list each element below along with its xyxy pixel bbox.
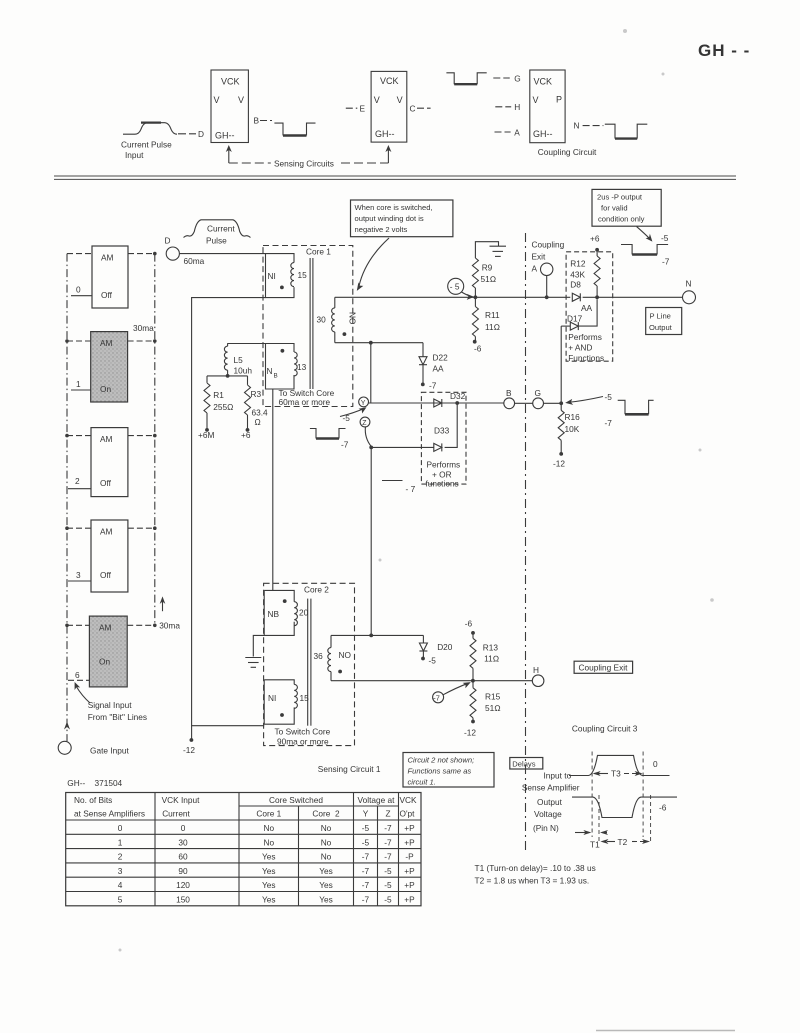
winding NB (core 1) box <box>266 344 295 390</box>
svg-text:B: B <box>506 388 512 398</box>
ground (R9 top) <box>475 242 498 298</box>
svg-text:60ma: 60ma <box>184 256 205 266</box>
C/G negative pulse waveform <box>446 73 486 84</box>
svg-text:GH--: GH-- <box>215 131 235 141</box>
svg-text:+P: +P <box>404 866 415 876</box>
svg-text:51Ω: 51Ω <box>481 274 497 284</box>
svg-text:-7: -7 <box>605 418 613 428</box>
svg-text:R13: R13 <box>483 643 499 653</box>
svg-text:No: No <box>263 837 274 847</box>
gate input dashed bus (left vertical) <box>66 254 68 742</box>
scan speckles <box>119 29 714 952</box>
svg-text:+P: +P <box>404 837 415 847</box>
svg-text:-6: -6 <box>474 344 482 354</box>
T3 dimension <box>594 773 608 775</box>
winding NI dot (core 2) <box>280 713 284 717</box>
svg-text:Yes: Yes <box>319 866 333 876</box>
svg-text:90: 90 <box>178 866 188 876</box>
Core 2 dashed enclosure <box>264 583 355 745</box>
svg-text:30ma: 30ma <box>133 323 154 333</box>
arrow -7 to R13 junction <box>443 683 468 695</box>
svg-text:-7: -7 <box>362 895 370 905</box>
circuit 2 note box <box>403 753 494 788</box>
B output negative pulse waveform <box>274 123 315 135</box>
svg-text:AM: AM <box>100 338 113 348</box>
svg-text:at Sense Amplifiers: at Sense Amplifiers <box>74 809 145 819</box>
wire Y line to OR box <box>369 402 504 404</box>
svg-text:output winding dot is: output winding dot is <box>355 214 424 223</box>
svg-text:N: N <box>267 366 273 376</box>
svg-text:V: V <box>533 95 539 105</box>
wire gate bus to AM6 <box>67 624 89 626</box>
svg-text:-7: -7 <box>384 852 392 862</box>
svg-text:90ma or more: 90ma or more <box>277 736 329 746</box>
wire AM1 to right bus <box>128 340 155 342</box>
input waveform <box>569 755 670 775</box>
svg-text:0: 0 <box>76 285 81 295</box>
svg-text:GH - -: GH - - <box>698 41 750 60</box>
svg-text:D: D <box>165 236 171 246</box>
svg-text:R9: R9 <box>482 263 493 273</box>
resistor R13 11ohm <box>470 638 476 668</box>
node Y circle <box>359 397 369 407</box>
svg-text:VCK: VCK <box>221 77 240 87</box>
svg-text:T2 = 1.8 us when T3 = 1.93 us.: T2 = 1.8 us when T3 = 1.93 us. <box>475 876 590 886</box>
coupling exit boundary dashed line <box>525 233 527 850</box>
svg-text:Core 2: Core 2 <box>304 585 329 595</box>
wire L5 top to NB <box>228 343 266 345</box>
wire Z vertical to core 2 <box>370 447 372 635</box>
svg-text:13: 13 <box>297 362 307 372</box>
svg-text:AM: AM <box>101 253 114 263</box>
svg-text:2us -P output: 2us -P output <box>597 193 643 202</box>
transformer core 1 lines <box>309 258 311 389</box>
separator double rule <box>54 175 736 177</box>
ground (core 2) <box>253 635 264 656</box>
wire D33 input <box>371 446 434 448</box>
svg-text:Functions same as: Functions same as <box>408 767 472 776</box>
winding NI (core 1) box <box>266 254 295 298</box>
node A label with dashes <box>495 131 511 133</box>
svg-text:Yes: Yes <box>262 895 276 905</box>
svg-text:No: No <box>321 852 332 862</box>
svg-text:GH--: GH-- <box>375 129 395 139</box>
svg-text:-5: -5 <box>661 233 669 243</box>
svg-text:-5: -5 <box>362 823 370 833</box>
svg-text:D22: D22 <box>433 353 449 363</box>
svg-text:-7: -7 <box>362 880 370 890</box>
table frame <box>66 793 421 906</box>
svg-text:+6M: +6M <box>198 430 214 440</box>
svg-text:Ω: Ω <box>255 417 261 427</box>
svg-text:-7: -7 <box>429 381 437 391</box>
P line output box <box>646 308 682 335</box>
svg-text:-5: -5 <box>384 895 392 905</box>
wire R1-R3 rail <box>207 375 248 377</box>
svg-text:V: V <box>374 95 380 105</box>
svg-text:From "Bit" Lines: From "Bit" Lines <box>88 712 147 722</box>
svg-text:Core 1: Core 1 <box>256 809 281 819</box>
svg-text:+ AND: + AND <box>568 343 592 353</box>
svg-text:T1: T1 <box>590 840 600 850</box>
VCK box U2 <box>371 71 407 142</box>
svg-text:B: B <box>274 373 278 380</box>
svg-text:condition only: condition only <box>598 215 645 224</box>
svg-text:63.4: 63.4 <box>252 408 269 418</box>
svg-text:functions: functions <box>426 479 459 489</box>
svg-text:T1 (Turn-on delay)= .10 to .38: T1 (Turn-on delay)= .10 to .38 us <box>475 863 596 873</box>
diode D33 <box>434 443 442 451</box>
svg-text:Output: Output <box>649 323 673 332</box>
diode D8 on P line <box>572 293 580 301</box>
svg-text:Y: Y <box>363 809 369 819</box>
svg-text:Core Switched: Core Switched <box>269 795 323 805</box>
svg-text:4: 4 <box>118 880 123 890</box>
svg-text:Z: Z <box>362 420 367 427</box>
svg-text:-5: -5 <box>605 392 613 402</box>
Z stub to D33 line <box>365 427 371 447</box>
coupling exit boxed label <box>574 661 633 673</box>
N output negative pulse waveform <box>605 124 648 138</box>
svg-text:Voltage at: Voltage at <box>358 795 396 805</box>
wire AM2 to right bus <box>128 435 155 437</box>
svg-text:Core 1: Core 1 <box>306 247 331 257</box>
svg-text:-12: -12 <box>464 728 476 738</box>
wire Y drop <box>370 343 372 403</box>
svg-text:Exit: Exit <box>532 252 547 262</box>
svg-text:Coupling Circuit 3: Coupling Circuit 3 <box>572 724 638 734</box>
svg-text:On: On <box>99 657 110 667</box>
svg-text:-7: -7 <box>384 837 392 847</box>
wire D to NI <box>179 253 265 255</box>
signal input arrow <box>76 686 90 703</box>
winding NB (core 2) box <box>264 590 294 635</box>
svg-text:+P: +P <box>404 880 415 890</box>
svg-text:No: No <box>321 823 332 833</box>
node Z circle <box>360 417 370 427</box>
svg-text:AM: AM <box>100 527 113 537</box>
svg-text:G: G <box>514 74 520 84</box>
resistor R12 43K <box>594 256 600 286</box>
svg-text:+6: +6 <box>241 430 251 440</box>
svg-text:1: 1 <box>118 837 123 847</box>
right dashed bus <box>154 254 156 626</box>
T1 dimension <box>575 832 589 834</box>
svg-text:- 7: - 7 <box>406 484 416 494</box>
current pulse waveform (main) <box>184 220 251 238</box>
arrow note box to NO winding <box>359 238 389 286</box>
svg-text:Current Pulse: Current Pulse <box>121 140 172 150</box>
bit 0 stub <box>71 295 92 297</box>
svg-text:Circuit 2 not shown;: Circuit 2 not shown; <box>408 756 475 765</box>
svg-text:Z: Z <box>385 809 390 819</box>
AM box 3 (Off) <box>91 520 128 592</box>
svg-text:-6: -6 <box>465 619 473 629</box>
arrow up on gate bus <box>64 722 70 730</box>
svg-text:-6: -6 <box>659 803 667 813</box>
bit 1 stub <box>71 389 91 391</box>
table verticals <box>155 793 399 906</box>
node E label <box>346 107 358 109</box>
diode D20 <box>422 635 424 643</box>
-7 source circle <box>433 692 444 703</box>
30ma arrow lower <box>162 600 164 611</box>
svg-text:R3: R3 <box>251 389 262 399</box>
gate input circle <box>58 741 71 754</box>
sensing circuits arrow 1 <box>228 149 230 163</box>
winding NI coil (core 2) <box>294 684 297 708</box>
wire AM6 to right bus <box>127 624 155 626</box>
winding NB coil (core 2) <box>294 602 297 626</box>
svg-text:(Pin N): (Pin N) <box>533 823 559 833</box>
wire OR output to B,G <box>457 402 561 404</box>
resistor R11 11ohm <box>474 297 476 306</box>
winding NB coil <box>294 352 297 376</box>
-5 source circle <box>448 278 464 294</box>
inductor L5 <box>227 343 229 346</box>
node N circle <box>683 291 696 304</box>
arrow -5 to G junction <box>567 397 603 403</box>
bit 3 stub <box>68 580 91 582</box>
wire NB core1 to NB core2 <box>272 389 274 590</box>
arrow -5 to junction <box>462 292 471 296</box>
svg-text:-7: -7 <box>433 693 440 702</box>
svg-text:D33: D33 <box>434 426 450 436</box>
sensing circuits arrow 2 <box>387 149 389 163</box>
svg-text:11Ω: 11Ω <box>485 322 501 332</box>
svg-text:N: N <box>574 121 580 131</box>
svg-text:30: 30 <box>178 837 188 847</box>
svg-text:V: V <box>214 95 220 105</box>
svg-text:15: 15 <box>300 693 310 703</box>
node H circle <box>532 675 544 687</box>
node D circle <box>166 247 179 260</box>
svg-text:2: 2 <box>75 476 80 486</box>
svg-text:Off: Off <box>101 290 113 300</box>
svg-text:R12: R12 <box>570 259 586 269</box>
wire dash to D <box>178 133 196 135</box>
VCK box U1 <box>211 70 248 143</box>
svg-text:+P: +P <box>404 895 415 905</box>
svg-text:0: 0 <box>118 823 123 833</box>
svg-text:AA: AA <box>581 303 593 313</box>
svg-text:NO: NO <box>339 650 352 660</box>
svg-text:AA: AA <box>433 364 445 374</box>
svg-text:When core is switched,: When core is switched, <box>355 203 433 212</box>
node G label with dashes <box>493 77 509 79</box>
note box: when core is switched <box>351 200 453 237</box>
timing dashed guide lines <box>591 752 593 838</box>
svg-text:NI: NI <box>268 271 276 281</box>
svg-text:No: No <box>321 837 332 847</box>
winding NB polarity dot <box>281 349 285 353</box>
svg-text:circuit 1.: circuit 1. <box>408 778 436 787</box>
svg-text:Coupling: Coupling <box>532 240 565 250</box>
svg-text:VCK: VCK <box>380 76 399 86</box>
svg-text:- 5: - 5 <box>450 282 460 292</box>
T2 dimension <box>600 839 608 844</box>
delays boxed label <box>510 758 543 770</box>
svg-text:G: G <box>535 388 541 398</box>
node G circle <box>533 398 544 409</box>
svg-text:D17: D17 <box>567 314 583 324</box>
svg-text:Yes: Yes <box>319 895 333 905</box>
svg-text:6: 6 <box>75 670 80 680</box>
Core 1 dashed enclosure <box>263 246 353 407</box>
-5 waveform near Y <box>310 429 346 439</box>
svg-text:0: 0 <box>181 823 186 833</box>
AM box 6 (On, shaded) <box>89 616 127 687</box>
resistor R15 51ohm <box>472 681 474 688</box>
svg-text:-5: -5 <box>429 656 437 666</box>
svg-text:Yes: Yes <box>262 852 276 862</box>
winding NI coil <box>291 263 294 287</box>
resistor R1 255ohm <box>206 376 208 383</box>
-12 terminal stub (left) <box>191 726 193 739</box>
svg-text:Output: Output <box>537 797 563 807</box>
svg-text:Current: Current <box>162 809 190 819</box>
wire NO bottom to H <box>331 680 532 682</box>
wire NI bottom return <box>192 298 266 726</box>
svg-text:Yes: Yes <box>262 866 276 876</box>
junction on D bus <box>153 252 157 256</box>
svg-text:VCK Input: VCK Input <box>162 795 201 805</box>
svg-text:Yes: Yes <box>262 880 276 890</box>
svg-text:43K: 43K <box>570 270 585 280</box>
svg-text:60: 60 <box>178 852 188 862</box>
svg-text:1: 1 <box>76 379 81 389</box>
svg-text:10uh: 10uh <box>234 366 253 376</box>
svg-text:D32: D32 <box>450 391 466 401</box>
svg-text:-12: -12 <box>183 745 195 755</box>
resistor R3 63.4ohm <box>247 376 249 385</box>
arrow 2us box to waveform <box>637 227 650 239</box>
diode D32 <box>434 399 442 407</box>
svg-text:Sensing Circuits: Sensing Circuits <box>274 159 334 169</box>
svg-text:Coupling Circuit: Coupling Circuit <box>538 147 597 157</box>
svg-text:3: 3 <box>118 866 123 876</box>
wire AM3 to right bus <box>128 527 155 529</box>
svg-text:15: 15 <box>298 270 308 280</box>
resistor R16 10K <box>560 403 562 410</box>
-P output waveform (top right) <box>621 245 668 255</box>
winding NO (core 1) <box>334 297 336 308</box>
svg-text:AM: AM <box>99 623 112 633</box>
AM box 2 (Off) <box>91 428 128 497</box>
svg-text:R16: R16 <box>565 412 581 422</box>
svg-text:Input to: Input to <box>544 771 572 781</box>
wire AM0 to D bus <box>128 253 155 255</box>
svg-text:60ma or more: 60ma or more <box>279 397 331 407</box>
svg-text:A: A <box>532 264 538 274</box>
svg-text:VCK: VCK <box>400 795 418 805</box>
wire gate bus to AM3 <box>67 527 91 529</box>
AND dashed box <box>566 252 613 361</box>
svg-text:Sense Amplifier: Sense Amplifier <box>522 783 580 793</box>
current pulse input waveform <box>123 123 177 135</box>
wire NO bottom to D22 / Y <box>335 342 423 344</box>
svg-text:30ma: 30ma <box>159 621 180 631</box>
svg-text:120: 120 <box>176 880 190 890</box>
winding NI (core 2) box <box>264 680 294 724</box>
wire D17 down to G junction <box>560 326 562 404</box>
svg-text:+P: +P <box>404 823 415 833</box>
svg-text:51Ω: 51Ω <box>485 703 501 713</box>
svg-text:Pulse: Pulse <box>206 236 227 246</box>
wire gate bus to AM2 <box>67 435 91 437</box>
svg-text:Current: Current <box>207 224 235 234</box>
svg-text:-12: -12 <box>553 459 565 469</box>
svg-text:O'pt: O'pt <box>400 809 416 819</box>
svg-text:GH--: GH-- <box>533 129 553 139</box>
svg-text:36: 36 <box>314 651 324 661</box>
svg-text:D: D <box>198 129 204 139</box>
svg-text:C: C <box>410 104 416 114</box>
svg-text:0: 0 <box>653 759 658 769</box>
svg-text:GH-- 371504: GH-- 371504 <box>67 778 122 788</box>
svg-text:3: 3 <box>76 570 81 580</box>
winding NB dot (core 2) <box>283 599 287 603</box>
svg-text:Coupling Exit: Coupling Exit <box>579 663 629 673</box>
wire gate bus to AM0 <box>67 253 92 255</box>
junction L5 bottom <box>226 374 230 378</box>
svg-text:Input: Input <box>125 150 144 160</box>
svg-text:R15: R15 <box>485 692 501 702</box>
svg-text:11Ω: 11Ω <box>484 654 500 664</box>
svg-text:L5: L5 <box>234 355 244 365</box>
table horizontals <box>239 805 399 807</box>
winding NO (core 2) <box>330 635 332 647</box>
output waveform <box>572 797 677 817</box>
svg-text:-7: -7 <box>662 257 670 267</box>
OR output tie <box>445 403 458 447</box>
svg-text:P: P <box>556 95 562 105</box>
svg-text:negative 2 volts: negative 2 volts <box>355 225 408 234</box>
svg-text:Off: Off <box>100 478 112 488</box>
sensing circuits connecting line <box>229 162 271 164</box>
svg-text:T2: T2 <box>618 837 628 847</box>
svg-text:Off: Off <box>100 570 112 580</box>
svg-text:On: On <box>100 384 111 394</box>
svg-text:Gate Input: Gate Input <box>90 746 129 756</box>
faint scanner mark bottom right <box>596 1030 735 1032</box>
svg-text:for valid: for valid <box>601 204 628 213</box>
bit 2 stub <box>68 488 91 490</box>
svg-text:NB: NB <box>268 609 280 619</box>
svg-text:No. of Bits: No. of Bits <box>74 795 112 805</box>
svg-text:Yes: Yes <box>319 880 333 890</box>
main P line wire <box>335 296 571 298</box>
wire gate bus to AM1 <box>67 340 91 342</box>
svg-text:R11: R11 <box>485 310 500 320</box>
diode D22 <box>422 343 424 357</box>
svg-text:-P: -P <box>405 852 414 862</box>
svg-text:30: 30 <box>317 315 327 325</box>
svg-text:NI: NI <box>268 693 276 703</box>
svg-text:255Ω: 255Ω <box>213 402 233 412</box>
svg-text:150: 150 <box>176 895 190 905</box>
svg-text:Performs: Performs <box>427 460 461 470</box>
svg-text:E: E <box>360 104 366 114</box>
winding NI polarity dot <box>280 286 284 290</box>
svg-text:Voltage: Voltage <box>534 809 562 819</box>
svg-text:N: N <box>686 279 692 289</box>
svg-text:V: V <box>238 95 244 105</box>
svg-text:R1: R1 <box>213 390 224 400</box>
svg-text:Performs: Performs <box>568 332 602 342</box>
svg-text:VCK: VCK <box>534 77 553 87</box>
svg-text:10K: 10K <box>565 424 580 434</box>
